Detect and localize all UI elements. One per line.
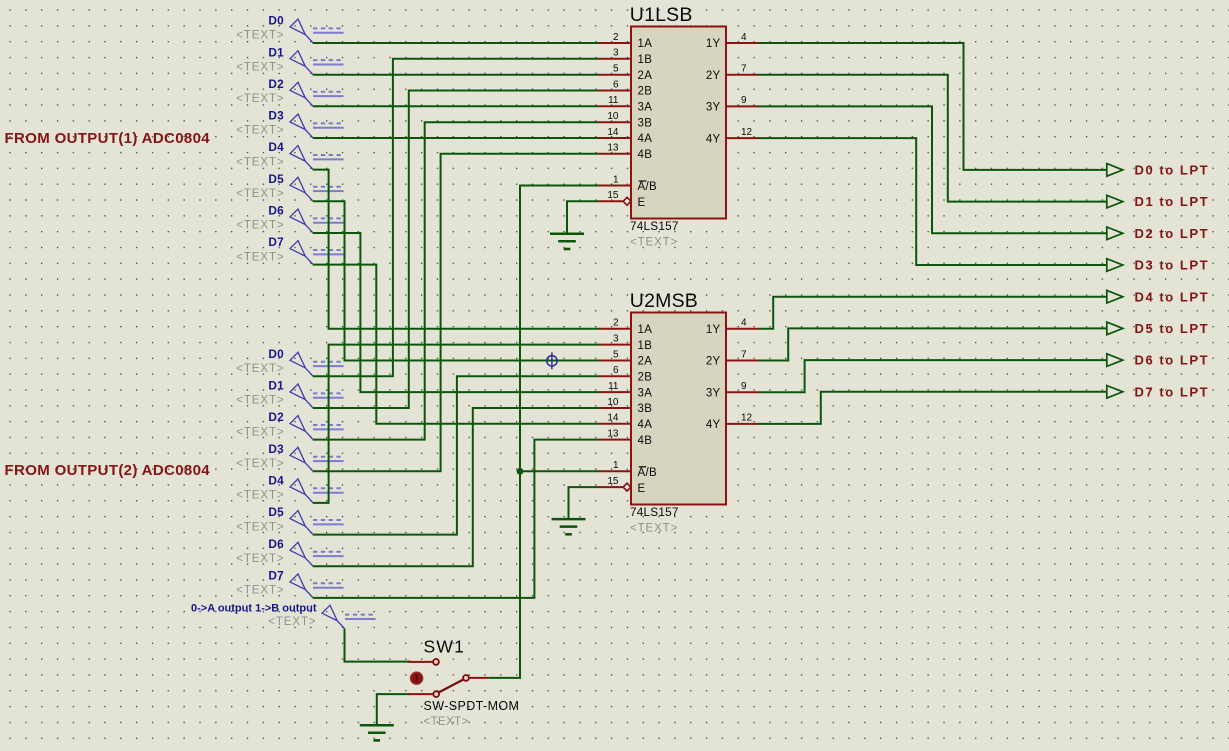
wire g2-D7 to U2 4B	[313, 440, 599, 598]
svg-text:5: 5	[613, 64, 619, 75]
svg-text:D2 to LPT: D2 to LPT	[1135, 226, 1210, 241]
svg-text:1Y: 1Y	[706, 324, 721, 336]
svg-text:4: 4	[741, 318, 747, 329]
svg-text:0->A output 1->B output: 0->A output 1->B output	[191, 602, 317, 614]
wire SW1 pole to A/B select line	[488, 186, 599, 678]
ground U1 enable ground	[550, 234, 584, 251]
wire g2-D2 to U1 3B	[313, 122, 599, 439]
svg-text:D2: D2	[268, 410, 284, 424]
svg-text:<TEXT>: <TEXT>	[236, 251, 284, 263]
wire U1 1Y to D0-LPT	[759, 43, 1107, 170]
svg-text:D6: D6	[268, 204, 284, 218]
wire g2-D1 to U1 2B	[313, 91, 599, 409]
input terminal D3 (group 1)	[236, 109, 343, 138]
input terminal D5 (group 1)	[236, 172, 343, 201]
U1LSB pin 5 (2A)	[599, 64, 652, 82]
svg-text:12: 12	[741, 413, 753, 424]
output terminal D5 to LPT	[1107, 321, 1209, 336]
U1LSB pin 6 (2B)	[599, 79, 652, 97]
74LS157 multiplexer U2MSB	[630, 290, 726, 504]
svg-text:D0 to LPT: D0 to LPT	[1135, 163, 1210, 178]
svg-text:<TEXT>: <TEXT>	[236, 61, 284, 73]
svg-text:10: 10	[607, 111, 619, 122]
wire g1-D7 to U2 4A	[313, 265, 599, 424]
svg-text:9: 9	[741, 381, 747, 392]
U1LSB pin 7 (2Y)	[706, 64, 759, 82]
svg-text:2B: 2B	[638, 86, 653, 98]
wire select terminal down to SW1	[345, 629, 411, 662]
output terminal D6 to LPT	[1107, 353, 1209, 368]
input terminal D6 (group 2)	[236, 537, 343, 566]
U2MSB pin 6 (2B)	[599, 365, 652, 383]
svg-text:14: 14	[607, 127, 619, 138]
svg-text:3: 3	[613, 333, 619, 344]
wire U2 2Y to D5-LPT	[759, 328, 1107, 360]
svg-text:4A: 4A	[638, 133, 653, 145]
svg-text:D0: D0	[268, 14, 284, 28]
svg-text:<TEXT>: <TEXT>	[236, 220, 284, 232]
output terminal D2 to LPT	[1107, 226, 1209, 241]
wire U1 3Y to D2-LPT	[759, 106, 1107, 233]
svg-text:2Y: 2Y	[706, 70, 721, 82]
svg-text:1: 1	[613, 460, 619, 471]
switch SW1 pole pin	[463, 675, 488, 681]
wire g2-D3 to U1 4B	[313, 154, 599, 472]
U2MSB pin 3 (1B)	[599, 333, 652, 351]
svg-text:6: 6	[613, 79, 619, 90]
svg-text:A/B: A/B	[638, 467, 657, 479]
svg-text:3B: 3B	[638, 403, 653, 415]
svg-text:<TEXT>: <TEXT>	[236, 30, 284, 42]
U1LSB value label 74LS157	[630, 219, 679, 249]
U1LSB pin 10 (3B)	[599, 111, 652, 129]
svg-text:74LS157: 74LS157	[630, 219, 679, 233]
svg-text:A/B: A/B	[638, 181, 657, 193]
svg-text:15: 15	[607, 190, 619, 201]
svg-text:E: E	[638, 197, 646, 209]
wire U1 4Y to D3-LPT	[759, 138, 1107, 265]
U2MSB pin 4 (1Y)	[706, 318, 759, 336]
svg-text:<TEXT>: <TEXT>	[630, 237, 678, 249]
input terminal D1 (group 1)	[236, 45, 343, 74]
switch SW1 top contact pin	[408, 659, 439, 665]
U1LSB pin 12 (4Y)	[706, 127, 759, 145]
input terminal D0 (group 1)	[236, 14, 343, 43]
output terminal D3 to LPT	[1107, 258, 1209, 273]
svg-text:4: 4	[741, 32, 747, 43]
svg-text:D1: D1	[268, 45, 284, 59]
svg-text:4Y: 4Y	[706, 419, 721, 431]
svg-text:SW1: SW1	[424, 637, 466, 657]
svg-text:4Y: 4Y	[706, 133, 721, 145]
input terminal D2 (group 2)	[236, 410, 343, 439]
svg-text:D7: D7	[268, 569, 284, 583]
U1LSB pin 2 (1A)	[599, 32, 652, 50]
caption 0->A output 1->B output	[191, 602, 317, 614]
wire U2 3Y to D6-LPT	[759, 360, 1107, 392]
svg-text:<TEXT>: <TEXT>	[236, 458, 284, 470]
input terminal D4 (group 1)	[236, 140, 343, 169]
svg-text:FROM OUTPUT(2) ADC0804: FROM OUTPUT(2) ADC0804	[5, 462, 211, 479]
svg-text:1A: 1A	[638, 38, 653, 50]
U2MSB pin 13 (4B)	[599, 428, 652, 446]
wire g2-D6 to U2 3B	[313, 408, 599, 566]
svg-text:1Y: 1Y	[706, 38, 721, 50]
svg-text:10: 10	[607, 397, 619, 408]
U2MSB pin 14 (4A)	[599, 413, 652, 431]
wire select branch to U2 pin 1	[520, 470, 599, 472]
wire g1-D0 to U1 1A	[313, 42, 599, 44]
wire g2-D5 to U2 2B	[313, 376, 599, 534]
svg-text:<TEXT>: <TEXT>	[236, 585, 284, 597]
svg-text:74LS157: 74LS157	[630, 505, 679, 519]
svg-text:D1: D1	[268, 379, 284, 393]
wire g2-D0 to U1 1B	[313, 59, 599, 377]
svg-text:D3: D3	[268, 109, 284, 123]
U2MSB pin 5 (2A)	[599, 349, 652, 367]
svg-text:D3 to LPT: D3 to LPT	[1135, 258, 1210, 273]
switch SW1 lever	[439, 679, 464, 692]
svg-text:14: 14	[607, 413, 619, 424]
input terminal D6 (group 1)	[236, 204, 343, 233]
input terminal D0 (group 2)	[236, 347, 343, 376]
svg-text:<TEXT>: <TEXT>	[630, 523, 678, 535]
output terminal D0 to LPT	[1107, 163, 1209, 178]
svg-text:<TEXT>: <TEXT>	[236, 490, 284, 502]
wire g1-D5 to U2 2A	[313, 201, 599, 360]
svg-text:11: 11	[608, 95, 619, 106]
svg-text:<TEXT>: <TEXT>	[236, 426, 284, 438]
U2MSB pin 1 (A/B select, overline on A)	[599, 460, 657, 479]
switch SW1 reference label	[424, 637, 466, 657]
svg-text:<TEXT>: <TEXT>	[236, 553, 284, 565]
svg-text:SW-SPDT-MOM: SW-SPDT-MOM	[424, 699, 520, 713]
svg-text:D5: D5	[268, 505, 284, 519]
svg-text:3A: 3A	[638, 102, 653, 114]
node marker (origin crosshair) on U2 2A wire	[547, 352, 557, 369]
wire U2 4Y to D7-LPT	[759, 392, 1107, 424]
svg-text:3Y: 3Y	[706, 387, 721, 399]
U2MSB value label 74LS157	[630, 505, 679, 535]
svg-text:2: 2	[613, 318, 619, 329]
svg-text:4A: 4A	[638, 419, 653, 431]
svg-text:D2: D2	[268, 77, 284, 91]
svg-text:1: 1	[613, 174, 619, 185]
svg-text:9: 9	[741, 95, 747, 106]
svg-text:<TEXT>: <TEXT>	[268, 616, 316, 628]
svg-text:7: 7	[741, 64, 747, 75]
svg-text:FROM OUTPUT(1) ADC0804: FROM OUTPUT(1) ADC0804	[5, 130, 211, 147]
U1LSB pin 13 (4B)	[599, 143, 652, 161]
svg-text:2A: 2A	[638, 70, 653, 82]
switch SW1 momentary actuator dot	[410, 672, 423, 685]
svg-text:1A: 1A	[638, 324, 653, 336]
wire g2-D4 to U2 1B	[313, 345, 599, 503]
svg-text:D1 to LPT: D1 to LPT	[1135, 194, 1210, 209]
svg-text:D7 to LPT: D7 to LPT	[1135, 384, 1210, 399]
svg-text:D4: D4	[268, 140, 284, 154]
svg-text:2: 2	[613, 32, 619, 43]
ground U2 enable ground	[552, 519, 586, 536]
svg-text:<TEXT>: <TEXT>	[236, 125, 284, 137]
svg-text:U2MSB: U2MSB	[630, 290, 698, 312]
svg-text:D6: D6	[268, 537, 284, 551]
svg-text:D4 to LPT: D4 to LPT	[1135, 289, 1210, 304]
wire g1-D6 to U2 3A	[313, 233, 599, 392]
wire g1-D2 to U1 3A	[313, 105, 599, 107]
wire U2 1Y to D4-LPT	[759, 297, 1107, 329]
output terminal D7 to LPT	[1107, 384, 1209, 399]
U2MSB pin 9 (3Y)	[706, 381, 759, 399]
U1LSB pin 3 (1B)	[599, 48, 652, 66]
U2MSB pin 7 (2Y)	[706, 349, 759, 367]
input terminal D1 (group 2)	[236, 379, 343, 408]
node junction select/U2-pin1	[517, 468, 524, 475]
svg-text:E: E	[638, 483, 646, 495]
svg-text:4B: 4B	[638, 149, 653, 161]
input terminal D5 (group 2)	[236, 505, 343, 534]
switch SW1 bottom contact pin	[408, 691, 439, 697]
wire g1-D4 to U2 1A	[313, 170, 599, 329]
svg-text:7: 7	[741, 349, 747, 360]
output terminal D4 to LPT	[1107, 289, 1209, 304]
U2MSB pin 2 (1A)	[599, 318, 652, 336]
caption FROM OUTPUT(2) ADC0804	[5, 462, 211, 479]
svg-text:D6 to LPT: D6 to LPT	[1135, 353, 1210, 368]
svg-text:3A: 3A	[638, 387, 653, 399]
U1LSB pin 9 (3Y)	[706, 95, 759, 113]
input terminal D7 (group 1)	[236, 235, 343, 264]
wire g1-D3 to U1 4A	[313, 137, 599, 139]
input terminal D7 (group 2)	[236, 569, 343, 598]
wire U2 E to ground	[569, 487, 600, 519]
switch SW1 value label SW-SPDT-MOM	[424, 699, 520, 728]
U2MSB pin 12 (4Y)	[706, 413, 759, 431]
input terminal SEL (select terminal)	[268, 605, 375, 628]
svg-text:<TEXT>: <TEXT>	[236, 188, 284, 200]
74LS157 multiplexer U1LSB	[630, 4, 726, 218]
svg-text:2Y: 2Y	[706, 356, 721, 368]
caption FROM OUTPUT(1) ADC0804	[5, 130, 211, 147]
svg-text:3B: 3B	[638, 117, 653, 129]
input terminal D4 (group 2)	[236, 474, 343, 503]
input terminal D2 (group 1)	[236, 77, 343, 106]
svg-text:D4: D4	[268, 474, 284, 488]
svg-text:D5 to LPT: D5 to LPT	[1135, 321, 1210, 336]
wire g1-D1 to U1 2A	[313, 74, 599, 76]
svg-text:U1LSB: U1LSB	[630, 4, 693, 26]
U1LSB pin 15 (E enable, active-low bubble)	[599, 190, 646, 209]
svg-text:3Y: 3Y	[706, 102, 721, 114]
U1LSB pin 14 (4A)	[599, 127, 652, 145]
U1LSB pin 1 (A/B select, overline on A)	[599, 174, 657, 193]
svg-text:5: 5	[613, 349, 619, 360]
U2MSB pin 15 (E enable, active-low bubble)	[599, 476, 646, 495]
svg-text:6: 6	[613, 365, 619, 376]
U1LSB pin 4 (1Y)	[706, 32, 759, 50]
svg-text:D7: D7	[268, 235, 284, 249]
U2MSB pin 11 (3A)	[599, 381, 652, 399]
svg-text:<TEXT>: <TEXT>	[236, 521, 284, 533]
svg-text:15: 15	[607, 476, 619, 487]
U1LSB pin 11 (3A)	[599, 95, 652, 113]
svg-text:<TEXT>: <TEXT>	[236, 363, 284, 375]
svg-text:4B: 4B	[638, 435, 653, 447]
svg-text:D0: D0	[268, 347, 284, 361]
wire SW1 lower contact to ground	[377, 694, 410, 725]
svg-text:2A: 2A	[638, 356, 653, 368]
svg-text:<TEXT>: <TEXT>	[236, 395, 284, 407]
svg-text:1B: 1B	[638, 54, 653, 66]
svg-text:<TEXT>: <TEXT>	[424, 716, 469, 728]
svg-text:D5: D5	[268, 172, 284, 186]
svg-text:2B: 2B	[638, 372, 653, 384]
svg-text:D3: D3	[268, 442, 284, 456]
wire U1 2Y to D1-LPT	[759, 75, 1107, 202]
svg-text:12: 12	[741, 127, 753, 138]
svg-text:13: 13	[607, 143, 619, 154]
U2MSB pin 10 (3B)	[599, 397, 652, 415]
wire U1 E to ground	[567, 201, 599, 234]
svg-text:1B: 1B	[638, 340, 653, 352]
svg-text:<TEXT>: <TEXT>	[236, 93, 284, 105]
svg-text:11: 11	[608, 381, 619, 392]
input terminal D3 (group 2)	[236, 442, 343, 471]
output terminal D1 to LPT	[1107, 194, 1209, 209]
svg-text:3: 3	[613, 48, 619, 59]
svg-text:13: 13	[607, 428, 619, 439]
ground SW1 ground	[360, 725, 394, 741]
svg-text:<TEXT>: <TEXT>	[236, 156, 284, 168]
